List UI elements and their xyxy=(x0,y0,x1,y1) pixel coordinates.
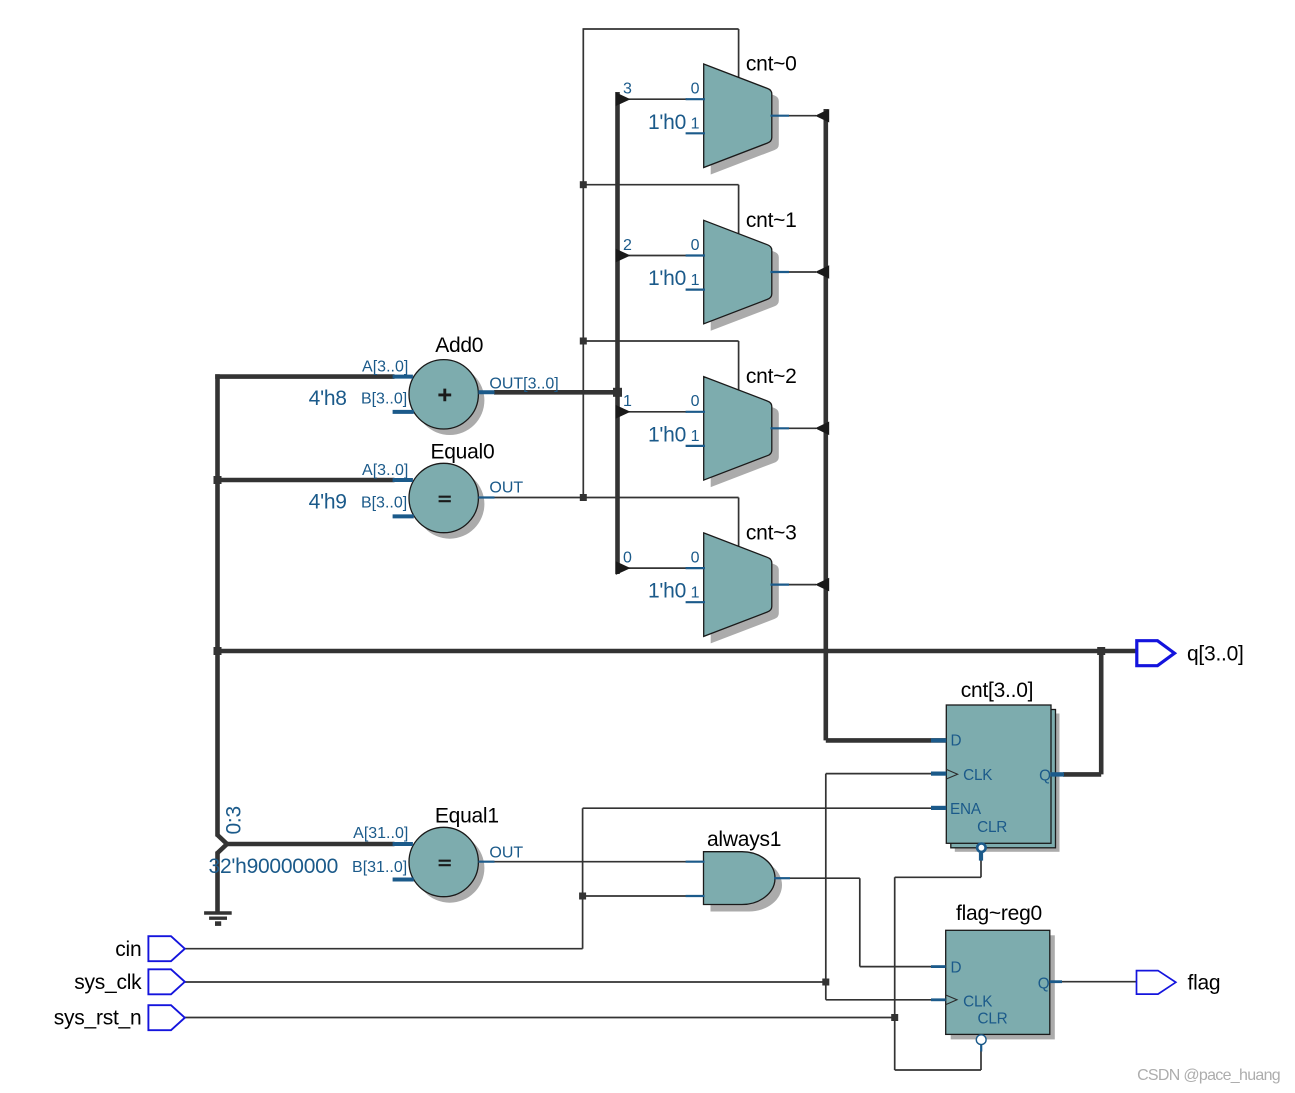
wire: q feedback bus vertical (left) xyxy=(215,374,220,836)
svg-text:1: 1 xyxy=(691,584,700,601)
mux cnt~0 xyxy=(704,64,772,168)
output pin flag xyxy=(1137,971,1176,995)
wire: select branch cnt~2 xyxy=(583,340,738,342)
svg-text:always1: always1 xyxy=(707,828,781,851)
wire: Equal0 A bus xyxy=(218,478,395,483)
shadows xyxy=(415,71,1060,1039)
mux cnt~3 xyxy=(704,533,772,637)
wire: cin to always1 input 2 xyxy=(583,895,704,897)
svg-text:0: 0 xyxy=(691,81,700,98)
fanout arrows xyxy=(616,92,829,591)
adder Add0 xyxy=(409,360,478,429)
wire: cnt~2 output wire xyxy=(789,427,816,429)
wire: cnt~0 input-0 wire xyxy=(628,98,687,100)
flag CLR stub xyxy=(980,1045,982,1052)
cnt CLR bubble xyxy=(977,844,985,852)
svg-text:4'h8: 4'h8 xyxy=(309,387,347,410)
Add0 plus sign xyxy=(438,389,451,402)
input pin sys_rst_n xyxy=(148,1005,184,1030)
cnt CLK edge triangle xyxy=(946,769,957,779)
svg-text:1: 1 xyxy=(623,393,632,410)
svg-text:sys_clk: sys_clk xyxy=(74,971,142,994)
wire: Equal1 OUT to always1 xyxy=(479,861,704,863)
Equal0 equals sign xyxy=(439,497,451,502)
svg-text:cnt~1: cnt~1 xyxy=(746,209,797,232)
svg-text:1: 1 xyxy=(691,116,700,133)
svg-text:B[31..0]: B[31..0] xyxy=(352,859,407,876)
svg-text:B[3..0]: B[3..0] xyxy=(361,495,407,512)
svg-text:1'h0: 1'h0 xyxy=(648,111,686,134)
wire: cnt~0 output wire xyxy=(789,115,816,117)
svg-text:0: 0 xyxy=(623,550,632,567)
and gate always1 xyxy=(704,852,776,905)
wire: register Q to q bus xyxy=(1063,772,1101,777)
Equal1 equals sign xyxy=(439,861,451,866)
svg-text:32'h90000000: 32'h90000000 xyxy=(209,855,338,878)
wire: select drop to cnt~3 xyxy=(738,498,740,554)
svg-text:4'h9: 4'h9 xyxy=(309,491,347,514)
svg-text:OUT[3..0]: OUT[3..0] xyxy=(489,375,558,392)
svg-text:0: 0 xyxy=(691,237,700,254)
wire: flag Q wire xyxy=(1055,981,1137,983)
port stubs xyxy=(393,99,1064,1000)
svg-text:Q: Q xyxy=(1038,976,1050,993)
mux cnt~2 xyxy=(704,377,772,481)
wire: Add0 OUT bus xyxy=(494,390,618,395)
svg-text:OUT: OUT xyxy=(489,480,523,497)
wire: cnt~1 input-0 wire xyxy=(628,255,687,257)
svg-text:2: 2 xyxy=(623,237,632,254)
svg-text:CLR: CLR xyxy=(978,1011,1008,1028)
svg-text:0: 0 xyxy=(691,550,700,567)
svg-text:1: 1 xyxy=(691,272,700,289)
wire: q bus horizontal xyxy=(215,649,1135,654)
svg-text:ENA: ENA xyxy=(950,801,982,818)
wire: cnt~3 output wire xyxy=(789,584,816,586)
comparator Equal0 xyxy=(409,463,478,532)
svg-text:0:3: 0:3 xyxy=(223,806,246,834)
svg-text:0: 0 xyxy=(691,393,700,410)
wire: mux output bus to register D xyxy=(823,109,828,740)
wire: Add0 A bus xyxy=(215,374,394,379)
wire: mux input-0 distribution bus xyxy=(615,92,620,574)
wire: always1 output to flag D xyxy=(790,877,860,879)
svg-text:D: D xyxy=(951,733,962,750)
svg-text:sys_rst_n: sys_rst_n xyxy=(54,1007,142,1030)
input pin cin xyxy=(148,936,184,961)
svg-text:D: D xyxy=(951,960,962,977)
svg-text:cnt~0: cnt~0 xyxy=(746,53,797,76)
svg-text:1'h0: 1'h0 xyxy=(648,580,686,603)
wire: Equal0 OUT / select branch cnt~3 xyxy=(479,497,739,499)
wire: select branch cnt~1 xyxy=(583,184,738,186)
svg-text:flag: flag xyxy=(1188,972,1221,995)
wire: Equal1 A bus xyxy=(227,842,395,847)
output pin q[3..0] xyxy=(1137,641,1175,666)
mux cnt~1 xyxy=(704,220,772,323)
register flag~reg0 body xyxy=(946,930,1050,1034)
svg-text:OUT: OUT xyxy=(489,845,523,862)
wire: select riser xyxy=(582,29,584,498)
ground xyxy=(204,913,232,926)
wire: cnt~1 output wire xyxy=(789,271,816,273)
wire: select drop to cnt~0 xyxy=(738,29,740,85)
svg-text:A[31..0]: A[31..0] xyxy=(353,825,408,842)
register cnt[3..0] body xyxy=(951,710,1056,848)
flag CLR bubble xyxy=(976,1035,986,1045)
svg-text:Q: Q xyxy=(1039,768,1051,785)
wire: cin net xyxy=(185,948,583,950)
wire: select top loop xyxy=(583,28,739,30)
svg-text:flag~reg0: flag~reg0 xyxy=(956,902,1042,925)
svg-text:CSDN @pace_huang: CSDN @pace_huang xyxy=(1137,1067,1280,1084)
svg-text:CLR: CLR xyxy=(977,819,1007,836)
svg-text:cnt~2: cnt~2 xyxy=(746,365,797,388)
wire: cnt~3 input-0 wire xyxy=(628,567,687,569)
svg-text:Equal0: Equal0 xyxy=(431,441,495,464)
svg-text:A[3..0]: A[3..0] xyxy=(362,359,408,376)
svg-text:1'h0: 1'h0 xyxy=(648,267,686,290)
wire: bus ripper kink xyxy=(218,835,228,853)
svg-text:Add0: Add0 xyxy=(435,334,483,357)
svg-text:q[3..0]: q[3..0] xyxy=(1187,643,1244,666)
svg-text:cnt~3: cnt~3 xyxy=(746,521,797,544)
svg-text:CLK: CLK xyxy=(963,993,993,1010)
svg-text:B[3..0]: B[3..0] xyxy=(361,391,407,408)
svg-text:1: 1 xyxy=(691,428,700,445)
wire: sys_clk net xyxy=(185,981,826,983)
wire: select drop to cnt~2 xyxy=(738,341,740,398)
svg-text:cnt[3..0]: cnt[3..0] xyxy=(961,679,1033,702)
comparator Equal1 xyxy=(409,827,478,896)
flag CLK edge triangle xyxy=(946,995,957,1005)
svg-text:3: 3 xyxy=(623,81,632,98)
input pin sys_clk xyxy=(148,969,184,994)
svg-text:A[3..0]: A[3..0] xyxy=(362,462,408,479)
wire: cnt~2 input-0 wire xyxy=(628,411,687,413)
svg-text:1'h0: 1'h0 xyxy=(648,423,686,446)
wire: sys_rst_n net xyxy=(185,1017,895,1019)
svg-text:cin: cin xyxy=(115,938,141,961)
svg-text:Equal1: Equal1 xyxy=(435,805,499,828)
wire: select drop to cnt~1 xyxy=(738,185,740,242)
svg-text:CLK: CLK xyxy=(963,767,993,784)
